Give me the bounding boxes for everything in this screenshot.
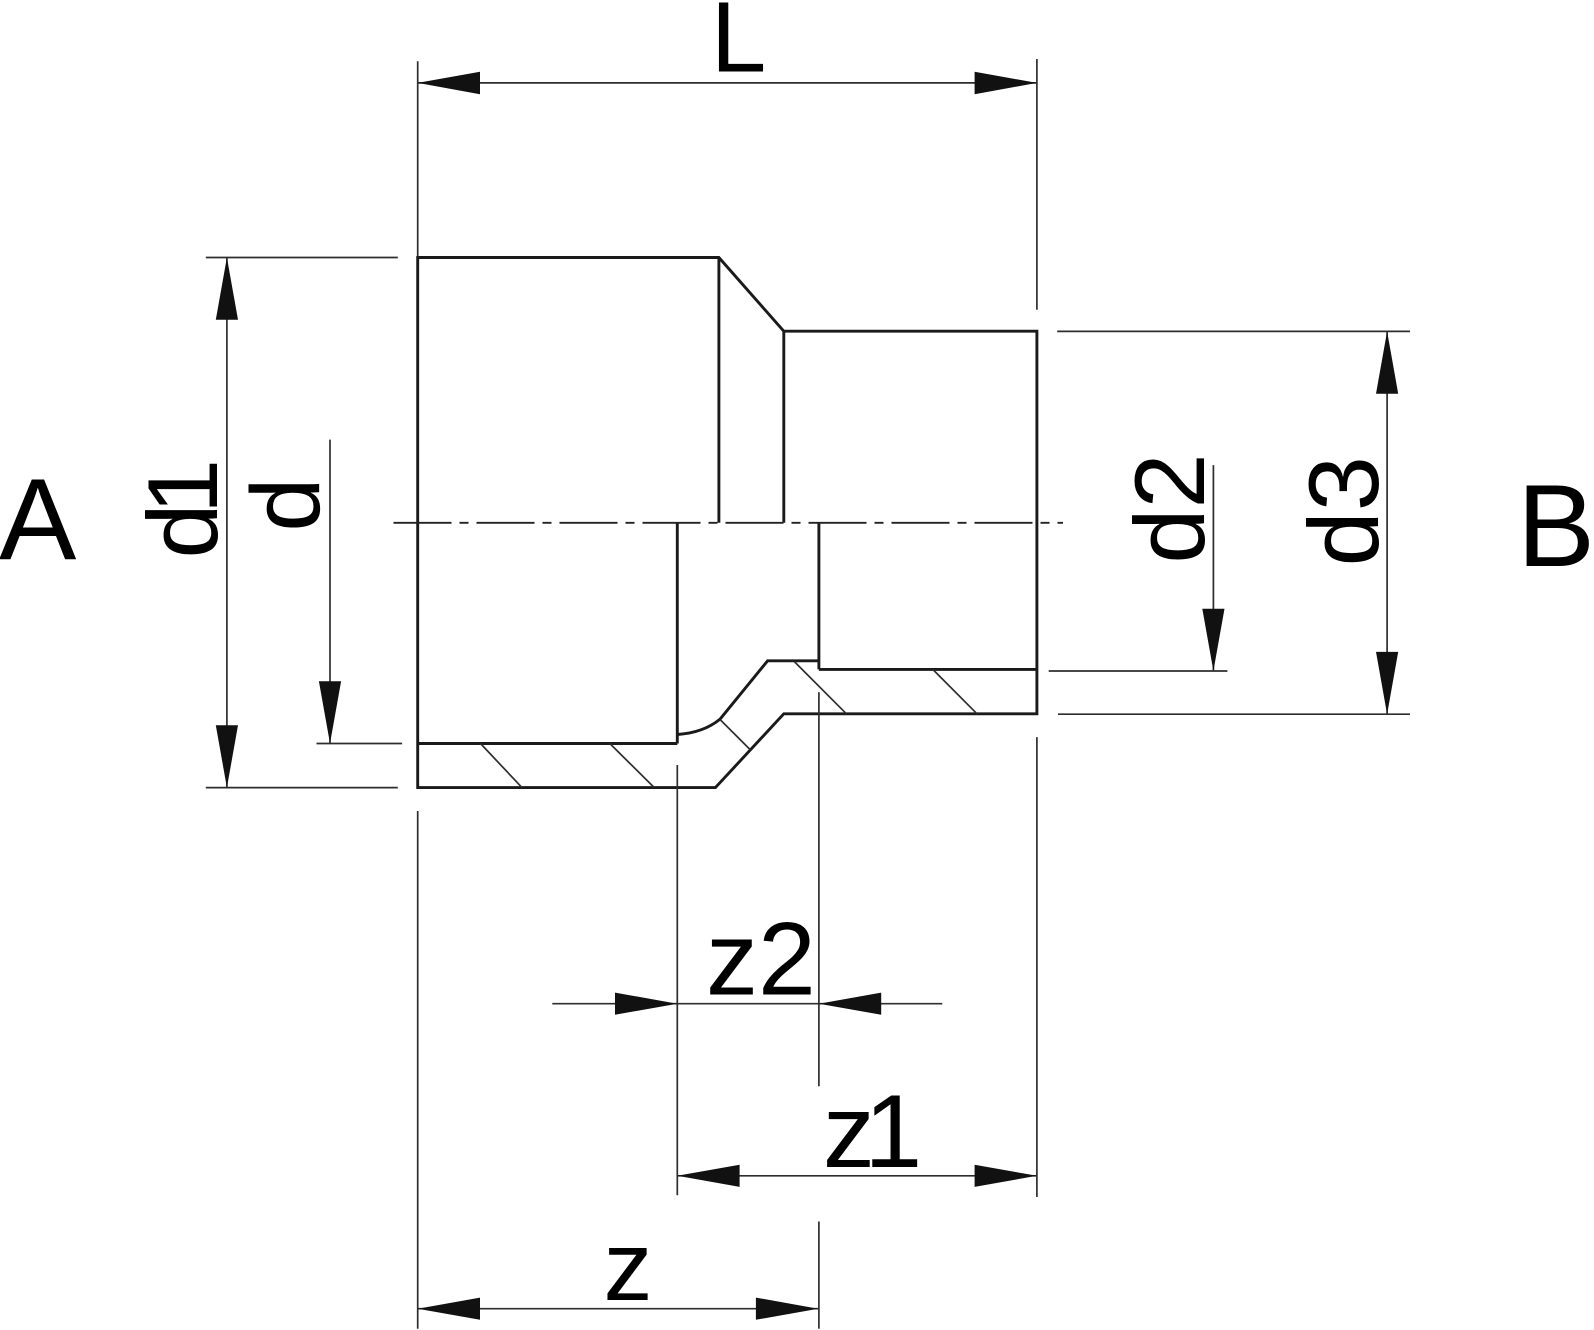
L arrow right	[975, 72, 1037, 94]
small socket bore line lower	[819, 668, 1037, 671]
z2 arrow right	[819, 993, 881, 1015]
d2 dimension line	[1212, 465, 1214, 671]
svg-text:z1: z1	[823, 1074, 922, 1190]
d extension line	[317, 743, 403, 745]
z dimension line	[418, 1308, 819, 1310]
hatch line small wall	[933, 669, 977, 713]
socket wall line lower left	[676, 523, 679, 744]
z1 dimension line	[677, 1175, 1037, 1177]
taper end line upper	[782, 331, 785, 523]
svg-text:z2: z2	[706, 901, 816, 1017]
svg-text:d: d	[231, 478, 340, 532]
d1 extension line bottom	[206, 787, 398, 789]
d3 dimension line	[1386, 331, 1388, 714]
transition inner wall	[678, 661, 819, 735]
d3 extension line top	[1057, 330, 1410, 332]
d arrow bottom	[319, 681, 341, 743]
z arrow right	[756, 1298, 818, 1320]
L extension line right	[1036, 59, 1038, 310]
d3 extension line bottom	[1058, 713, 1410, 715]
socket bore bottom line lower left	[418, 742, 678, 745]
z1 arrow right	[975, 1165, 1037, 1187]
z arrow left	[418, 1298, 480, 1320]
d2 arrow bottom	[1202, 609, 1224, 671]
svg-text:d3: d3	[1288, 456, 1399, 566]
d1 arrow top	[216, 258, 238, 320]
d dimension line	[329, 440, 331, 744]
d1 extension line top	[206, 257, 398, 259]
d1 arrow bottom	[216, 725, 238, 787]
z2 z1 extension line left	[676, 765, 678, 1195]
z1 arrow left	[677, 1165, 739, 1187]
small socket wall line lower	[817, 523, 820, 670]
svg-text:A: A	[0, 454, 77, 584]
d1 dimension line	[226, 258, 228, 788]
socket depth line upper	[717, 258, 720, 523]
svg-text:B: B	[1517, 460, 1594, 591]
d2 extension line	[1049, 670, 1228, 672]
d3 arrow bottom	[1376, 652, 1398, 714]
d3 arrow top	[1376, 331, 1398, 393]
z z2 extension line right upper	[818, 692, 820, 1086]
centerline	[394, 522, 1064, 524]
z1 extension line right	[1036, 737, 1038, 1197]
svg-text:z: z	[604, 1211, 653, 1321]
z extension line left	[417, 811, 419, 1329]
L dimension line	[418, 82, 1037, 84]
hatch lines transition wall	[721, 720, 751, 750]
z2 dimension line	[552, 1003, 942, 1005]
svg-text:d2: d2	[1114, 453, 1225, 563]
svg-text:L: L	[711, 0, 767, 94]
hatch lines big wall	[481, 744, 523, 788]
body outline reducer fitting	[418, 258, 1037, 788]
L arrow left	[418, 72, 480, 94]
L extension line left	[417, 61, 419, 256]
z extension line right lower	[818, 1222, 820, 1329]
z2 arrow left	[615, 993, 677, 1015]
svg-text:d1: d1	[127, 459, 238, 559]
